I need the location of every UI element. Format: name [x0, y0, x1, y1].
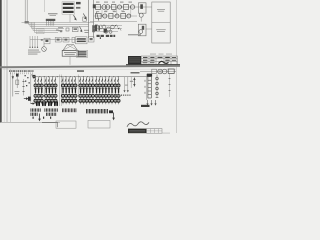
stamp box 1: [56, 121, 76, 128]
node: chain junction dots: [101, 6, 102, 7]
label: chain 1 specks: [96, 1, 100, 4]
transformer T1: [102, 5, 107, 10]
relay coil K6: [107, 27, 111, 31]
wire: block A drop: [69, 14, 71, 22]
label: light designation row: [128, 34, 141, 35]
label: right top text: [131, 72, 140, 74]
arrow: down feed left: [39, 114, 41, 120]
wire: bottom left link: [42, 123, 58, 128]
box: switch S3: [168, 69, 174, 73]
arrow: diagonal tap 2: [80, 27, 83, 32]
label: chain 2 specks: [96, 10, 99, 13]
relay K10 with label: [73, 27, 79, 32]
node: riser junction dark: [92, 25, 95, 32]
signature squiggle: [159, 61, 169, 63]
wire: spare feeder: [44, 0, 46, 12]
node: bus head blob: [33, 75, 36, 78]
sheet border right line: [175, 0, 178, 133]
node: bus-chain junction blob: [93, 4, 96, 8]
motor M2: [139, 30, 143, 34]
switch QS1 body: [46, 19, 56, 21]
label SchU: [77, 70, 84, 72]
wire: group separator rails: [44, 75, 78, 107]
box QF3: [63, 37, 69, 42]
label block: cable schedule: [77, 50, 88, 57]
wire: left feeder: [23, 79, 25, 96]
label: U1 upper cell text: [157, 8, 165, 11]
terminal block XT2: [76, 2, 81, 4]
node: entry blob: [28, 97, 31, 101]
terminal block XT1 row 2: [63, 7, 74, 9]
relay K4: [121, 14, 126, 19]
wire: chain interconnect ticks: [102, 7, 131, 16]
panel box U1: [152, 2, 170, 43]
terminal block XT1 row 3: [63, 11, 74, 13]
relay KT1 dark body: [95, 25, 97, 31]
bell HA1 horn: [63, 45, 78, 51]
label: dashes above title block: [150, 53, 156, 56]
label: left text dashes: [15, 90, 20, 93]
label: chain 1 lower specks: [105, 10, 108, 13]
contact S4 ticks: [117, 25, 122, 31]
wire: riser bus B: [93, 0, 95, 38]
wire: control row 2: [94, 28, 123, 30]
arrow: lamp drops: [146, 100, 156, 106]
arrow: supply entry: [24, 98, 27, 100]
label: sheet header text: [9, 70, 11, 72]
label: bus specks: [56, 30, 59, 31]
fuse FU2: [96, 14, 102, 19]
box QF5: [88, 37, 94, 42]
lamp HL3: [115, 14, 119, 18]
box QF1: [44, 38, 50, 44]
starter KM2 body: [139, 3, 147, 13]
wire: bus feed drop: [30, 75, 32, 103]
label: cable note: [84, 30, 89, 31]
wire: circuit chain 2: [94, 15, 138, 17]
label: note box NB1: [76, 37, 88, 44]
sheet border left margin line: [6, 0, 9, 123]
wire: return conductor: [90, 21, 137, 23]
relay K2: [124, 5, 129, 10]
bell HA1 base: [62, 50, 78, 56]
label: cable marks: [28, 49, 39, 52]
contactor KM1: [83, 17, 87, 21]
title block stamp (top sheet): [128, 56, 141, 65]
arrow: into marker row: [31, 103, 34, 105]
label: right bottom designation: [141, 105, 150, 107]
arrow: bus entry mark: [32, 74, 34, 78]
bottom sheet top border: [3, 68, 177, 70]
contact block S5: [66, 28, 69, 31]
wire: bell drop: [69, 56, 71, 65]
arrow: down feed right: [113, 113, 115, 119]
relay KT2 dark blob: [104, 29, 107, 33]
label: designation row left 2 (bold): [31, 113, 57, 116]
title block heavy base line: [126, 64, 180, 65]
relay coil K9: [109, 30, 112, 33]
label: dark designation row B: [106, 35, 109, 37]
label: designation row centre: [62, 108, 108, 113]
motor M1: [139, 13, 143, 17]
left margin faint line: [3, 0, 6, 123]
disconnect switch QS2: [12, 75, 14, 97]
wire: riser bus A: [88, 0, 90, 38]
pendant chain EL chain: [156, 75, 159, 98]
arrow: feeder tap: [74, 15, 77, 19]
wire: control row 3: [94, 31, 119, 33]
meter PV1: [42, 47, 47, 52]
title block table (top sheet): [141, 56, 177, 65]
relay coil K8: [105, 30, 108, 33]
binder edge dark strip: [0, 0, 2, 123]
label: bus note box: [37, 29, 45, 34]
wire: main lighting bus: [33, 76, 150, 78]
wire: horizontal bus N: [33, 22, 62, 30]
connector bold marker row: [36, 101, 58, 106]
fuse FU1: [96, 5, 101, 10]
box: switch S2: [152, 69, 157, 73]
label: designation row left (bold): [31, 108, 58, 111]
stamp box 2: [88, 120, 110, 128]
relay K1: [112, 5, 116, 10]
sheet divider band: [0, 65, 180, 68]
starter KM3 body: [138, 24, 146, 36]
socket X2: [158, 69, 163, 74]
wire: lower distribution: [30, 39, 85, 41]
wire: right drop: [146, 74, 148, 100]
bottom sheet bottom border: [2, 121, 60, 124]
lamp/relay column bank (rows of coils): [34, 77, 120, 104]
wire: drop 1: [30, 36, 38, 48]
switch QS1 poles: [47, 21, 54, 26]
box QF4: [72, 37, 75, 42]
wire: horizontal bus L3: [30, 22, 89, 26]
relay coil K7: [111, 25, 115, 29]
lamp HL1: [117, 5, 121, 9]
label: dark designation row A: [97, 35, 100, 37]
wire: horizontal bus PE: [35, 22, 59, 32]
starter KM2 coil mark: [140, 4, 143, 9]
wire: right riser 1: [124, 77, 126, 91]
label: riser specks: [130, 81, 133, 82]
node: drop junctions: [29, 47, 30, 48]
fuse FU3: [133, 78, 135, 87]
divider core line: [0, 66, 180, 68]
wire: control row 1: [94, 25, 123, 27]
label: U1 lower cell text: [156, 28, 166, 31]
starter KM3 coil mark: [142, 26, 144, 30]
bottom sheet inner margin line: [9, 69, 12, 122]
handwriting squiggle: [127, 122, 149, 127]
wire: link to panel: [146, 28, 152, 30]
meter PA1: [16, 74, 19, 77]
wire: right riser 3: [130, 77, 132, 88]
terminal block XT1 outline: [62, 2, 75, 14]
transformer T2: [103, 14, 107, 18]
label: speck rows mid-left: [58, 27, 63, 28]
arrow: riser tap: [83, 13, 86, 18]
node: feeder junction: [25, 21, 29, 23]
wire: horizontal bus L1: [22, 21, 94, 23]
node: bus taps: [35, 76, 36, 77]
socket X3: [162, 69, 167, 74]
box QF2: [55, 37, 61, 42]
label: left specks: [25, 75, 26, 76]
wire: top right run: [140, 71, 176, 73]
heater EK1 ladder: [144, 74, 152, 98]
label: descender marks: [33, 117, 34, 119]
wire: right riser 2: [127, 77, 129, 91]
label: table row 3 dashes: [143, 61, 148, 64]
panel box U1 divider: [152, 22, 170, 24]
label: numbers row: [111, 94, 131, 96]
node: control junction dots: [96, 25, 97, 26]
terminal block XT1 row 1: [63, 3, 74, 5]
wire: horizontal bus L2: [29, 22, 89, 24]
label GV-10B: [48, 13, 58, 14]
label 14: [109, 110, 113, 113]
wire: far right drop: [169, 73, 171, 97]
title block table (bottom sheet): [147, 129, 163, 134]
lamp HL4: [127, 14, 131, 18]
lamp HL2: [130, 5, 134, 9]
wire: horizontal bus L4: [32, 22, 65, 28]
arrow: tap to chain 2: [97, 12, 99, 20]
title block stamp (bottom sheet): [128, 129, 147, 134]
wire: incoming feeder pair: [25, 0, 27, 22]
relay K3: [109, 14, 113, 19]
wire: M1 drop: [140, 17, 142, 21]
contact S1: [98, 25, 103, 28]
relay coil K5: [102, 25, 106, 29]
terminal tick row: [10, 72, 13, 74]
wire: circuit chain 1: [94, 6, 153, 8]
title block base line extension: [162, 132, 170, 135]
